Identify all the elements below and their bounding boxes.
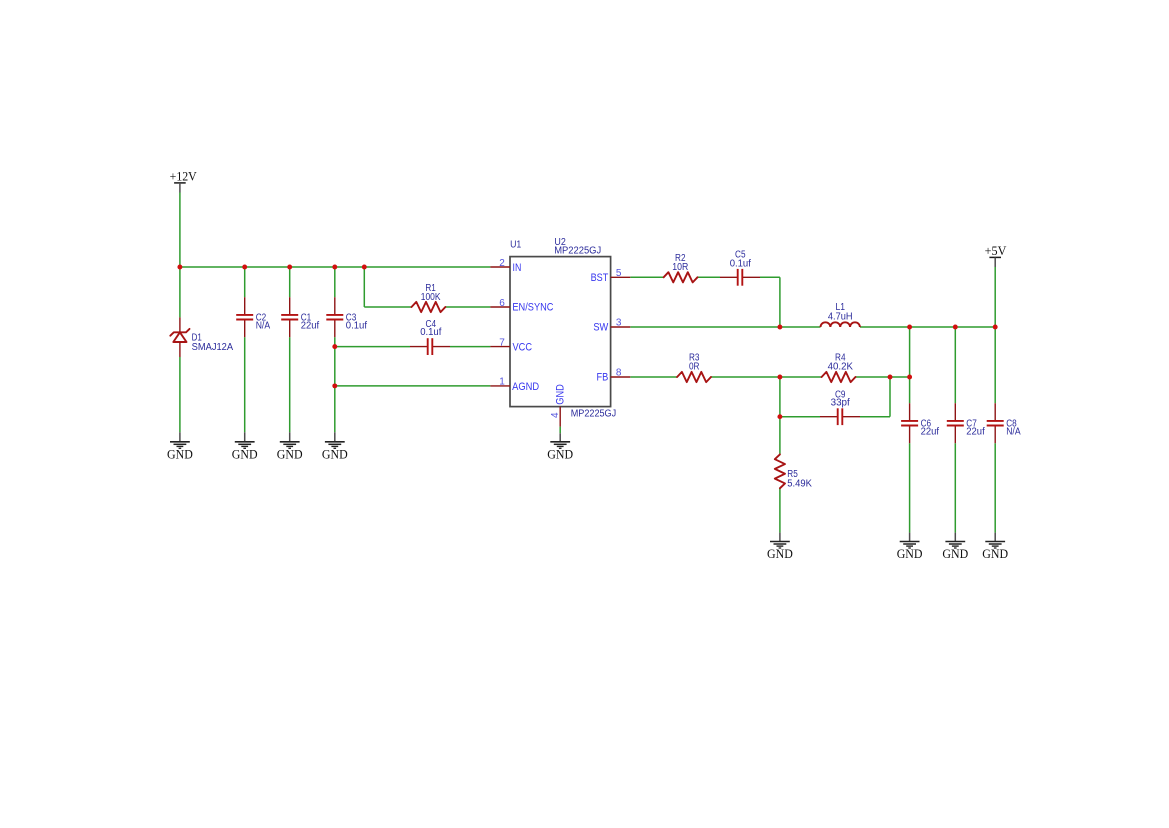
svg-text:+5V: +5V	[985, 244, 1007, 258]
svg-text:0.1uf: 0.1uf	[346, 321, 367, 332]
svg-text:FB: FB	[597, 372, 609, 384]
svg-text:10R: 10R	[672, 262, 688, 273]
svg-text:GND: GND	[167, 447, 193, 461]
svg-text:GND: GND	[277, 447, 303, 461]
svg-text:22uf: 22uf	[301, 321, 320, 332]
svg-text:+12V: +12V	[170, 170, 197, 184]
svg-text:5: 5	[616, 268, 622, 279]
svg-text:0.1uf: 0.1uf	[420, 327, 441, 338]
svg-text:22uf: 22uf	[966, 427, 985, 438]
svg-text:BST: BST	[591, 272, 609, 284]
svg-text:MP2225GJ: MP2225GJ	[554, 246, 601, 257]
svg-text:GND: GND	[322, 447, 348, 461]
svg-text:GND: GND	[554, 384, 566, 405]
svg-text:5.49K: 5.49K	[787, 478, 812, 489]
svg-text:8: 8	[616, 368, 622, 379]
svg-text:7: 7	[499, 337, 505, 348]
svg-text:4: 4	[550, 412, 561, 418]
svg-text:22uf: 22uf	[921, 427, 940, 438]
svg-text:40.2K: 40.2K	[828, 362, 854, 373]
svg-text:U1: U1	[510, 240, 522, 251]
svg-text:3: 3	[616, 318, 622, 329]
svg-text:SW: SW	[593, 322, 608, 334]
svg-text:33pf: 33pf	[831, 398, 850, 409]
svg-text:VCC: VCC	[513, 341, 533, 353]
svg-text:N/A: N/A	[1006, 427, 1021, 438]
svg-text:SMAJ12A: SMAJ12A	[192, 342, 234, 353]
svg-text:GND: GND	[982, 547, 1008, 561]
svg-text:MP2225GJ: MP2225GJ	[571, 408, 617, 419]
svg-text:N/A: N/A	[256, 321, 271, 332]
svg-text:GND: GND	[897, 547, 923, 561]
svg-text:GND: GND	[547, 447, 573, 461]
svg-text:AGND: AGND	[512, 381, 539, 393]
svg-text:100K: 100K	[421, 292, 441, 303]
svg-text:4.7uH: 4.7uH	[828, 312, 853, 323]
svg-text:GND: GND	[232, 447, 258, 461]
svg-text:EN/SYNC: EN/SYNC	[512, 302, 553, 314]
svg-text:GND: GND	[942, 547, 968, 561]
svg-text:0.1uf: 0.1uf	[730, 258, 751, 269]
svg-text:6: 6	[499, 298, 505, 309]
svg-text:GND: GND	[767, 547, 793, 561]
svg-text:0R: 0R	[689, 362, 700, 373]
svg-text:1: 1	[499, 377, 505, 388]
svg-text:2: 2	[499, 258, 505, 269]
svg-text:IN: IN	[513, 262, 522, 274]
